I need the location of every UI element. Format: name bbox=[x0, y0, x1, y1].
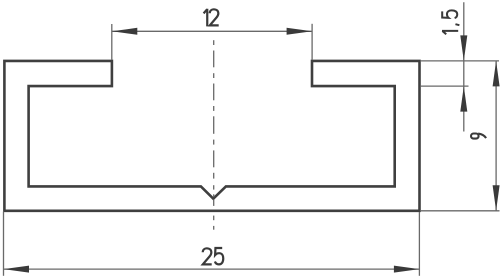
dimension 1,5: upper arrow (points down) bbox=[460, 35, 467, 61]
dimension 12: extension line left bbox=[111, 24, 113, 60]
dimension 12: right arrow bbox=[287, 28, 313, 35]
dimension 9: dimension line bbox=[495, 61, 497, 211]
dimension 9: bottom arrow (points down) bbox=[493, 185, 500, 211]
dimension 1,5: dimension line bbox=[463, 2, 465, 131]
dimension 12: dimension line bbox=[112, 30, 312, 32]
dimension 25: dimension line bbox=[4, 268, 420, 270]
dimension 9: extension line bottom bbox=[421, 210, 500, 212]
centerline (dash-dot vertical axis), hand-placed dashes bbox=[213, 40, 215, 230]
dimension 25: extension line left bbox=[3, 212, 5, 276]
dimension 1,5: extension line top (shared with 9) bbox=[421, 60, 499, 62]
dimension 25: extension line right bbox=[418, 212, 420, 276]
dimension 1,5: value label "1,5" (rotated) bbox=[442, 10, 459, 34]
dimension 1,5: extension line bottom bbox=[421, 85, 469, 87]
profile outline (C-channel cross-section with V-notch) bbox=[4, 61, 419, 211]
dimension 25: value label "25" bbox=[203, 248, 224, 264]
dimension 25: left arrow bbox=[4, 266, 30, 273]
dimension 25: right arrow bbox=[394, 266, 420, 273]
dimension 9: value label "9" (rotated) bbox=[471, 134, 486, 139]
dimension 9: top arrow (points up) bbox=[493, 61, 500, 87]
dimension 12: left arrow bbox=[112, 28, 138, 35]
dimension 1,5: lower arrow (points up) bbox=[460, 86, 467, 112]
dimension 12: value label "12" bbox=[204, 9, 219, 27]
dimension 12: extension line right bbox=[311, 24, 313, 60]
